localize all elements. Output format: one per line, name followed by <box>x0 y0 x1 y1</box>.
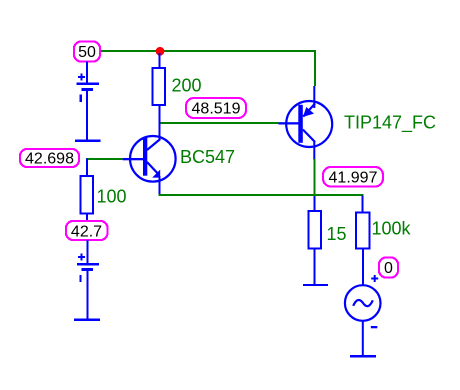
svg-text:0: 0 <box>384 260 393 277</box>
svg-text:TIP147_FC: TIP147_FC <box>344 113 436 134</box>
value 100k <box>372 219 412 239</box>
transistor Q1 BC547 <box>123 136 176 196</box>
svg-text:100k: 100k <box>372 219 412 239</box>
wire rail down to Q2 emitter <box>314 50 316 86</box>
transistor Q2 TIP147_FC <box>279 86 333 160</box>
ground of V3 <box>350 355 376 357</box>
node label 42.698 <box>20 149 79 168</box>
svg-text:41.997: 41.997 <box>329 170 378 187</box>
ground of V1 <box>75 140 100 143</box>
svg-text:15: 15 <box>327 224 347 244</box>
resistor R4 <box>356 196 370 286</box>
source V3 sine <box>345 275 381 356</box>
battery V2 <box>77 240 99 319</box>
battery V1 <box>76 62 99 140</box>
node label 50 <box>74 42 100 62</box>
node label 41.997 <box>323 167 383 187</box>
wire Q2 collector down <box>314 159 316 195</box>
svg-text:42.7: 42.7 <box>71 224 102 241</box>
wire +50 rail <box>100 50 316 52</box>
node label 42.7 <box>66 221 108 241</box>
svg-text:48.519: 48.519 <box>192 101 241 118</box>
junction dot <box>156 47 165 56</box>
part name TIP147_FC <box>344 113 436 134</box>
resistor R3 <box>308 196 321 284</box>
value 100 <box>97 187 127 207</box>
node label 0 <box>379 258 398 278</box>
wire node 42.698 to Q1 base <box>86 158 123 160</box>
resistor R1 <box>153 53 165 140</box>
part name BC547 <box>180 147 235 167</box>
svg-text:200: 200 <box>172 76 202 96</box>
value 200 <box>172 76 202 96</box>
svg-text:BC547: BC547 <box>180 147 235 167</box>
node label 48.519 <box>186 98 246 118</box>
ground of R3 <box>303 284 328 286</box>
wire emitter node 41.997 <box>159 194 364 196</box>
svg-text:50: 50 <box>78 44 96 61</box>
svg-text:42.698: 42.698 <box>25 151 74 168</box>
ground of V2 <box>74 319 100 322</box>
wire Q1 collector to Q2 base <box>161 122 279 124</box>
value 15 <box>327 224 347 244</box>
resistor R2 <box>81 159 94 222</box>
svg-text:100: 100 <box>97 187 127 207</box>
